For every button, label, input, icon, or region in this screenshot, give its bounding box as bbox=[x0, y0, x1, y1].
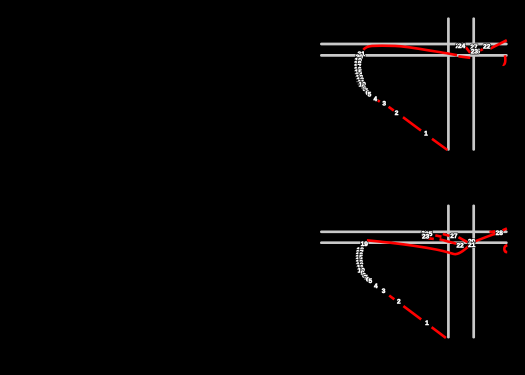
top arc point label 5 bbox=[368, 92, 372, 99]
top red trajectory: diagonal dash 2-3 bbox=[389, 107, 394, 111]
bottom arc point label 8 bbox=[362, 272, 366, 279]
bottom arc point label 6 bbox=[366, 276, 370, 283]
svg-text:2: 2 bbox=[397, 299, 401, 306]
svg-text:22: 22 bbox=[483, 43, 491, 50]
top arc point label 13 bbox=[356, 75, 364, 82]
svg-text:24: 24 bbox=[458, 43, 466, 50]
bottom arc point label 12 bbox=[356, 262, 364, 269]
bottom red trajectory: diagonal dash 1-2 bbox=[403, 306, 421, 319]
top red dash 26-25 descending bbox=[466, 47, 470, 53]
bottom cluster point label 20 bbox=[468, 239, 476, 246]
svg-text:1: 1 bbox=[424, 131, 428, 138]
bottom arc point label 11 bbox=[357, 265, 364, 272]
top cluster point label 26 bbox=[456, 43, 464, 50]
top arc point label 6 bbox=[366, 90, 370, 97]
bottom panel left vertical gray line bbox=[447, 206, 450, 337]
top arc point label 10 bbox=[359, 82, 367, 89]
bottom red rise toward 28 bbox=[474, 234, 497, 242]
svg-text:21: 21 bbox=[468, 242, 476, 249]
top red trajectory: diagonal dash 1-2 bbox=[403, 117, 421, 130]
bottom arc point label 18 bbox=[357, 247, 365, 254]
top arc point label 9 bbox=[361, 84, 365, 91]
bottom panel upper horizontal gray line bbox=[321, 230, 506, 233]
svg-text:23: 23 bbox=[471, 48, 479, 55]
top panel left vertical gray line bbox=[447, 19, 450, 150]
bottom cluster point label 21 bbox=[468, 242, 476, 249]
top arc point label 3 bbox=[382, 100, 386, 107]
top red trajectory: main curve along nullcline bbox=[363, 46, 457, 56]
top panel E-nullcline lower horizontal gray line bbox=[321, 54, 506, 57]
svg-text:4: 4 bbox=[373, 96, 377, 103]
svg-text:22: 22 bbox=[456, 242, 464, 249]
bottom point label 2 bbox=[397, 299, 401, 306]
bottom red dash left of 28 bbox=[490, 230, 496, 233]
bottom arc point label 5 bbox=[368, 278, 372, 285]
svg-text:3: 3 bbox=[382, 288, 386, 295]
top red dash under nullcline near fixed point bbox=[458, 56, 470, 58]
bottom arc point label 15 bbox=[356, 254, 364, 261]
top point label 1 bbox=[424, 131, 428, 138]
top cluster point label 27 bbox=[470, 44, 478, 51]
bottom arc point label 14 bbox=[356, 257, 364, 264]
top red trajectory: start diagonal dash 0-1 bbox=[432, 139, 447, 150]
svg-text:23: 23 bbox=[422, 233, 430, 240]
top arc point label 11 bbox=[358, 79, 365, 86]
top arc point label 20 bbox=[356, 54, 364, 61]
bottom cluster point label 27 bbox=[450, 233, 458, 240]
bottom arc point label 19 bbox=[361, 241, 369, 248]
top cluster point label 25 bbox=[473, 49, 481, 56]
bottom arc point label 10 bbox=[358, 267, 366, 274]
bottom arc point label 17 bbox=[356, 249, 364, 256]
bottom cluster point label 22 bbox=[456, 242, 464, 249]
svg-text:3: 3 bbox=[382, 100, 386, 107]
top red dash 23-22 bbox=[478, 49, 483, 52]
bottom cluster point label 28 bbox=[496, 230, 504, 237]
top point label 2 bbox=[395, 110, 399, 117]
svg-text:1: 1 bbox=[425, 320, 429, 327]
bottom red trajectory: main curve with dip bbox=[367, 240, 473, 254]
bottom red dash blob-27 b bbox=[443, 234, 450, 236]
svg-text:4: 4 bbox=[374, 283, 378, 290]
bottom cluster point label 25 bbox=[425, 231, 433, 238]
top panel right vertical gray line bbox=[472, 19, 475, 150]
bottom red dash under 24/25 blob bbox=[422, 237, 434, 239]
top arc point label 21 bbox=[358, 51, 366, 58]
svg-text:2: 2 bbox=[395, 110, 399, 117]
bottom cluster point label 24 bbox=[421, 231, 429, 238]
bottom arc point label 13 bbox=[356, 260, 364, 267]
top arc point label 15 bbox=[355, 69, 363, 76]
bottom red tick above-right of 28 bbox=[502, 229, 507, 231]
top arc point label 18 bbox=[354, 61, 362, 68]
top cluster point label 22 bbox=[483, 43, 491, 50]
top arc point label 17 bbox=[354, 64, 362, 71]
bottom point label 1 bbox=[425, 320, 429, 327]
top arc point label 8 bbox=[363, 86, 367, 93]
bottom arc point label 16 bbox=[356, 252, 364, 259]
top arc point label 19 bbox=[355, 57, 363, 64]
top panel E-nullcline upper horizontal gray line bbox=[321, 43, 506, 46]
top arc point label 7 bbox=[364, 88, 368, 95]
top arc point label 12 bbox=[357, 77, 365, 84]
bottom red diagonal 27 to 20/21 bbox=[459, 237, 468, 242]
bottom red trajectory: diagonal dash 2-3 bbox=[389, 296, 394, 300]
bottom arc point label 3 bbox=[382, 288, 386, 295]
bottom red dash below 27 toward 22 bbox=[440, 239, 457, 243]
svg-text:27: 27 bbox=[450, 233, 458, 240]
svg-text:5: 5 bbox=[368, 278, 372, 285]
top red diagonal to right edge bbox=[490, 40, 507, 49]
top cluster point label 24 bbox=[458, 43, 466, 50]
bottom red hook at right edge bbox=[504, 245, 507, 252]
top arc point label 14 bbox=[355, 72, 363, 79]
top red hook at right edge bbox=[503, 55, 506, 64]
top cluster point label 23 bbox=[471, 48, 479, 55]
bottom red dash blob-27 a bbox=[435, 235, 441, 236]
bottom arc point label 7 bbox=[364, 275, 368, 282]
svg-text:5: 5 bbox=[368, 92, 372, 99]
bottom cluster point label 23 bbox=[422, 233, 430, 240]
svg-text:28: 28 bbox=[496, 230, 504, 237]
bottom panel lower horizontal gray line bbox=[321, 241, 506, 244]
bottom arc point label 4 bbox=[374, 283, 378, 290]
bottom arc point label 9 bbox=[361, 270, 365, 277]
top arc point label 16 bbox=[354, 66, 362, 73]
top red tick between 3 and 4 bbox=[378, 100, 380, 101]
bottom red trajectory: start diagonal dash 0-1 bbox=[432, 327, 446, 338]
top arc point label 4 bbox=[373, 96, 377, 103]
bottom panel right vertical gray line bbox=[472, 206, 475, 337]
